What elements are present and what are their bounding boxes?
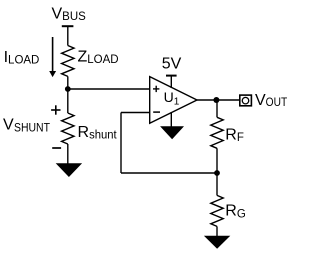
node junction ZLOAD/Rshunt bbox=[65, 86, 71, 92]
node VBUS terminal bbox=[62, 25, 74, 27]
wire op-amp output to VOUT port bbox=[197, 99, 240, 101]
label minus input U1 bbox=[153, 111, 160, 113]
wire ZLOAD to Rshunt bbox=[67, 76, 69, 113]
resistor ZLOAD bbox=[62, 46, 74, 77]
current arrow ILOAD bbox=[49, 37, 56, 77]
ground below RG bbox=[204, 236, 230, 249]
label plus input U1 bbox=[153, 86, 159, 92]
wire feedback to inverting input bbox=[121, 112, 150, 114]
wire junction to RG bbox=[216, 173, 218, 195]
op-amp U1 bbox=[150, 77, 197, 124]
wire op-amp to ground bbox=[170, 112, 172, 127]
resistor RG bbox=[211, 195, 223, 226]
ground below op-amp bbox=[160, 126, 184, 139]
ground below Rshunt bbox=[56, 163, 82, 177]
label plus Rshunt bbox=[51, 105, 60, 114]
resistor Rshunt bbox=[62, 113, 74, 144]
wire junction to op-amp noninverting input bbox=[68, 88, 150, 90]
wire RF to feedback junction bbox=[216, 148, 218, 173]
wire VBUS terminal to ZLOAD bbox=[67, 26, 69, 45]
wire Rshunt to ground bbox=[67, 144, 69, 164]
wire output to RF bbox=[216, 100, 218, 117]
wire feedback vertical bbox=[120, 113, 122, 174]
svg-text:5V: 5V bbox=[162, 56, 182, 73]
node feedback junction bbox=[214, 170, 220, 176]
wire 5V to op-amp bbox=[170, 76, 172, 88]
wire RG to ground bbox=[216, 226, 218, 236]
power 5V terminal bbox=[166, 75, 177, 77]
label minus Rshunt bbox=[52, 147, 61, 149]
resistor RF bbox=[211, 117, 223, 148]
port VOUT bbox=[240, 95, 252, 106]
wire feedback horizontal bbox=[121, 172, 217, 174]
node output junction bbox=[213, 97, 219, 103]
